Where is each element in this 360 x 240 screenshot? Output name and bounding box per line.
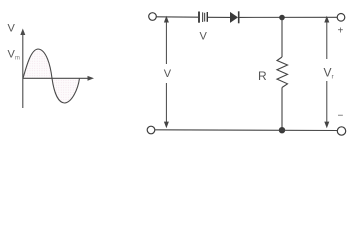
sine wave curve: [23, 49, 80, 103]
svg-text:V: V: [200, 31, 208, 43]
svg-text:V: V: [8, 23, 16, 35]
output Vr arrow lower segment: [326, 81, 328, 124]
svg-text:V: V: [164, 68, 172, 80]
wire battery to diode: [208, 16, 230, 18]
wire top-left to battery: [157, 16, 199, 18]
terminal top-left: [149, 13, 157, 21]
wire resistor to bottom junction: [281, 88, 283, 131]
terminal top-right: [337, 13, 345, 21]
vertical axis (graph): [22, 33, 24, 108]
wire junction down to resistor: [281, 18, 283, 58]
junction bottom node: [279, 127, 285, 133]
diode cathode bar: [238, 11, 240, 23]
diode D (anode triangle): [230, 12, 238, 23]
wire bottom rail: [155, 129, 338, 132]
resistor R zigzag: [277, 57, 288, 88]
input V arrow upper segment: [165, 21, 167, 65]
sine negative hump shading: [52, 78, 80, 103]
svg-text:−: −: [338, 111, 344, 122]
sine positive hump shading: [23, 49, 52, 78]
junction top node: [279, 15, 285, 21]
horizontal axis (graph): [23, 77, 90, 79]
terminal bottom-right: [337, 127, 345, 135]
input V arrow lower segment: [165, 83, 167, 124]
output Vr arrow upper segment: [326, 21, 328, 60]
terminal bottom-left: [147, 126, 155, 134]
svg-text:+: +: [338, 26, 344, 37]
wire diode to top-right terminal: [239, 16, 337, 18]
svg-text:R: R: [258, 69, 267, 83]
battery V plates: [198, 12, 200, 23]
